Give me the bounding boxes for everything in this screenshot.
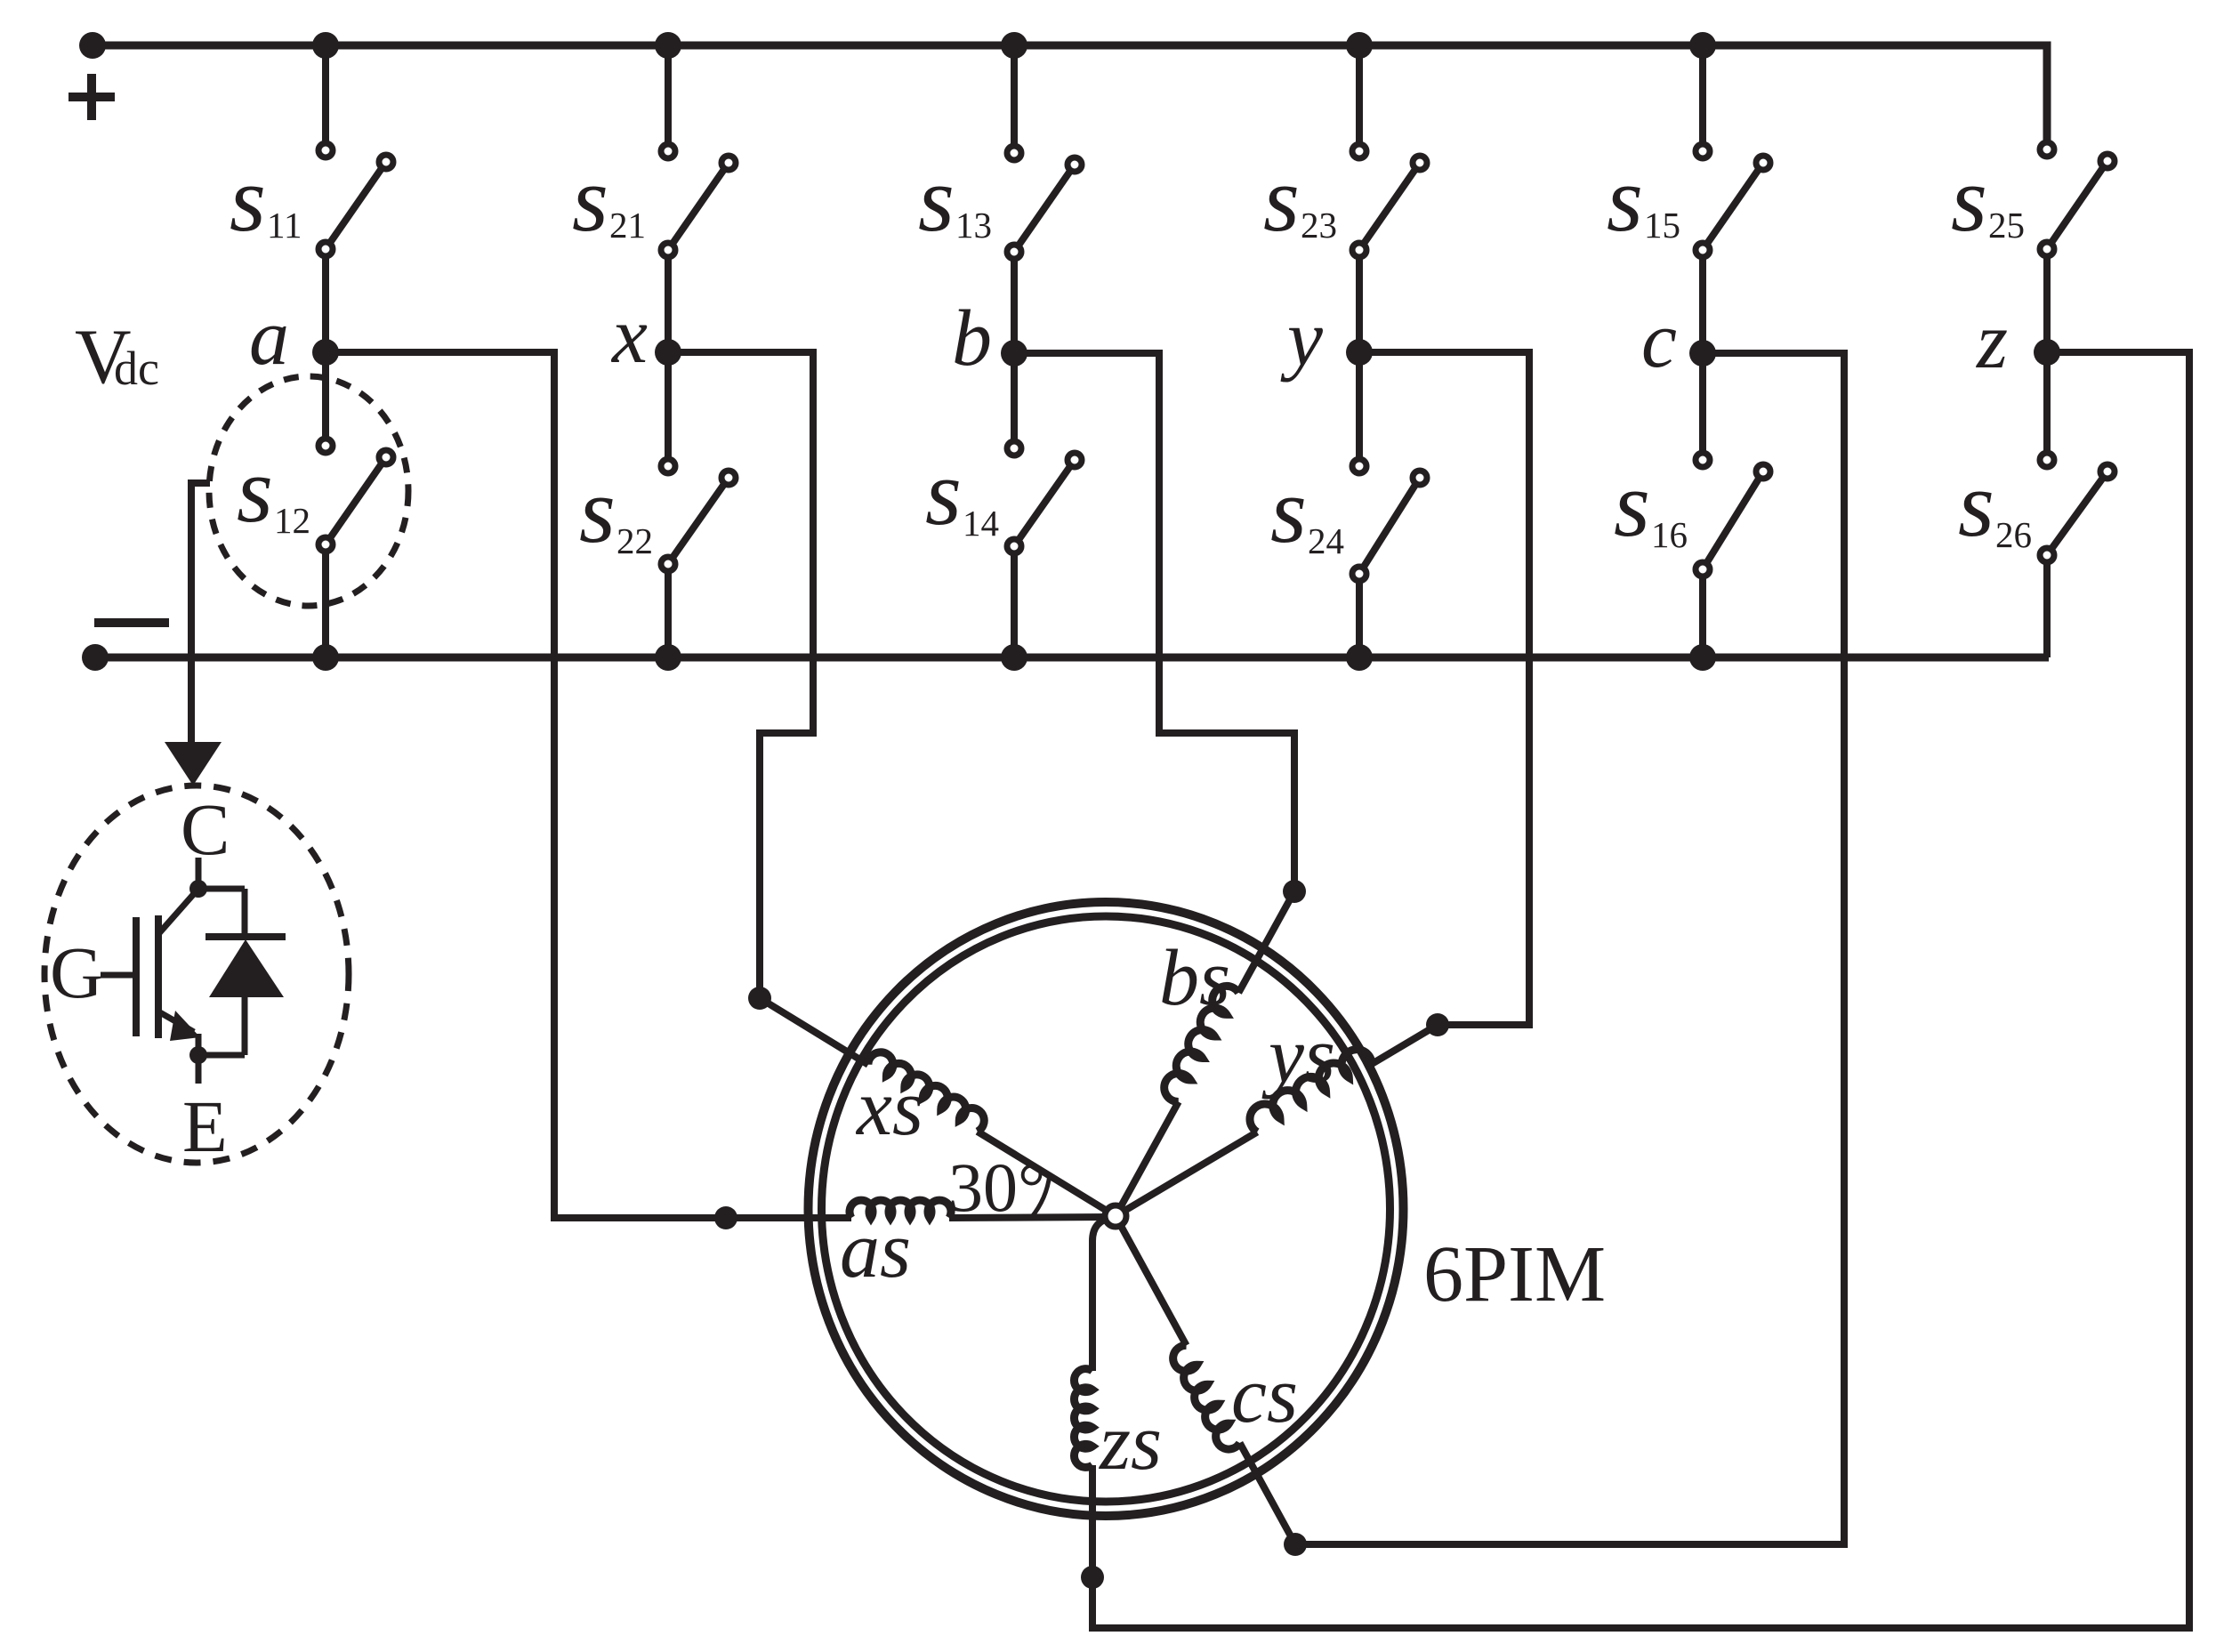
svg-text:30°: 30° xyxy=(948,1148,1045,1226)
svg-text:15: 15 xyxy=(1644,205,1680,246)
svg-text:b: b xyxy=(952,294,992,383)
svg-text:c: c xyxy=(1641,296,1677,384)
svg-text:s: s xyxy=(1263,147,1300,251)
svg-text:25: 25 xyxy=(1988,205,2025,246)
svg-text:a: a xyxy=(249,294,289,382)
svg-text:as: as xyxy=(840,1206,911,1294)
svg-text:s: s xyxy=(1270,458,1307,562)
svg-text:xs: xs xyxy=(855,1064,923,1152)
svg-text:24: 24 xyxy=(1308,520,1344,561)
svg-text:s: s xyxy=(1951,147,1987,251)
svg-text:11: 11 xyxy=(267,205,302,246)
svg-text:21: 21 xyxy=(609,205,646,246)
svg-text:x: x xyxy=(610,292,648,380)
svg-text:z: z xyxy=(1975,297,2008,385)
svg-text:s: s xyxy=(579,458,616,562)
svg-text:s: s xyxy=(1607,147,1643,251)
svg-text:s: s xyxy=(237,438,273,542)
svg-text:s: s xyxy=(1614,452,1650,556)
svg-text:ys: ys xyxy=(1261,1011,1335,1100)
svg-text:y: y xyxy=(1280,294,1323,383)
svg-text:12: 12 xyxy=(274,500,310,541)
svg-text:cs: cs xyxy=(1231,1351,1298,1439)
svg-text:26: 26 xyxy=(1995,514,2032,555)
svg-text:13: 13 xyxy=(955,205,992,246)
svg-text:s: s xyxy=(925,440,962,544)
svg-text:bs: bs xyxy=(1159,934,1230,1022)
svg-text:6PIM: 6PIM xyxy=(1423,1230,1606,1318)
svg-text:16: 16 xyxy=(1651,514,1688,555)
svg-text:s: s xyxy=(572,147,608,251)
svg-text:22: 22 xyxy=(616,520,653,561)
svg-text:zs: zs xyxy=(1098,1398,1162,1487)
svg-text:s: s xyxy=(1958,452,1994,556)
svg-text:s: s xyxy=(918,147,955,251)
svg-text:C: C xyxy=(181,788,230,870)
svg-text:23: 23 xyxy=(1301,205,1337,246)
svg-text:G: G xyxy=(50,931,103,1013)
svg-text:14: 14 xyxy=(963,503,999,544)
svg-text:s: s xyxy=(230,147,266,251)
svg-text:E: E xyxy=(182,1085,228,1167)
svg-text:dc: dc xyxy=(114,342,159,395)
